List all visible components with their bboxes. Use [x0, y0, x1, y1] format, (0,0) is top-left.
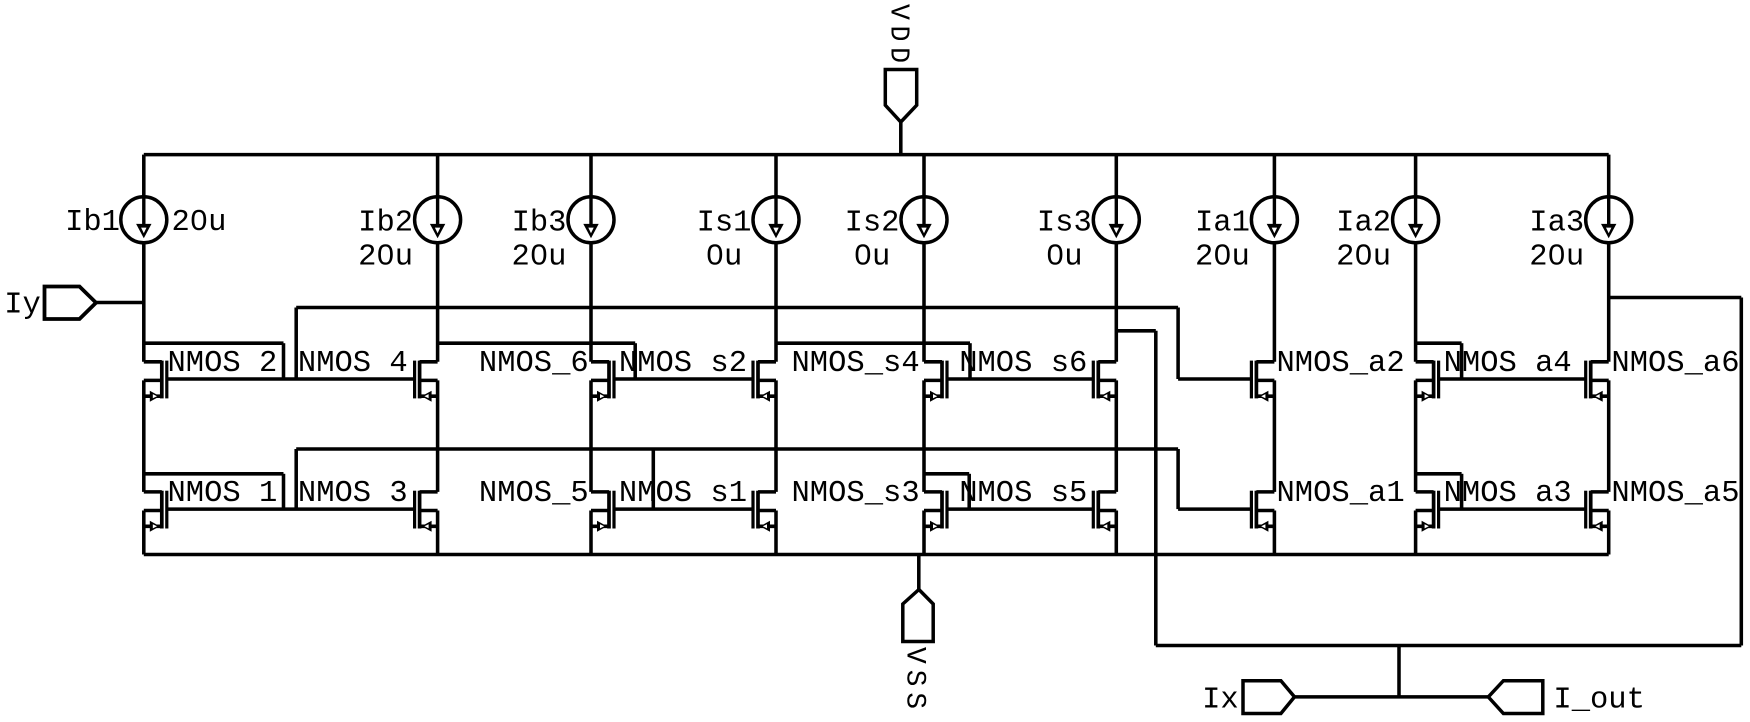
svg-text:Ib3: Ib3 — [512, 206, 567, 240]
svg-text:Is1: Is1 — [697, 206, 752, 240]
svg-text:NMOS_5: NMOS_5 — [479, 477, 589, 511]
svg-text:NMOS_s3: NMOS_s3 — [792, 477, 920, 511]
svg-text:Ia3: Ia3 — [1529, 206, 1584, 240]
svg-text:Ix: Ix — [1202, 683, 1239, 717]
svg-text:NMOS s6: NMOS s6 — [959, 347, 1087, 381]
svg-text:NMOS 3: NMOS 3 — [298, 477, 408, 511]
svg-text:0u: 0u — [1046, 240, 1083, 274]
svg-text:NMOS a4: NMOS a4 — [1444, 347, 1572, 381]
svg-text:NMOS a3: NMOS a3 — [1444, 477, 1572, 511]
svg-text:NMOS_a5: NMOS_a5 — [1611, 477, 1739, 511]
svg-text:Is2: Is2 — [845, 206, 900, 240]
svg-text:NMOS 4: NMOS 4 — [298, 347, 408, 381]
svg-text:Ib2: Ib2 — [358, 206, 413, 240]
svg-text:Ia1: Ia1 — [1195, 206, 1250, 240]
svg-text:Is3: Is3 — [1037, 206, 1092, 240]
svg-text:NMOS_a6: NMOS_a6 — [1611, 347, 1739, 381]
svg-text:0u: 0u — [706, 240, 743, 274]
svg-text:Ia2: Ia2 — [1336, 206, 1391, 240]
svg-text:NMOS 2: NMOS 2 — [168, 347, 278, 381]
svg-text:NMOS s2: NMOS s2 — [619, 347, 747, 381]
svg-text:NMOS s5: NMOS s5 — [959, 477, 1087, 511]
svg-text:NMOS_a2: NMOS_a2 — [1277, 347, 1405, 381]
svg-text:VSS: VSS — [899, 647, 930, 709]
svg-text:NMOS s1: NMOS s1 — [619, 477, 747, 511]
svg-text:NMOS_6: NMOS_6 — [479, 347, 589, 381]
svg-text:NMOS 1: NMOS 1 — [168, 477, 278, 511]
svg-text:Ib1: Ib1 — [65, 206, 120, 240]
svg-text:NMOS_a1: NMOS_a1 — [1277, 477, 1405, 511]
svg-text:VDD: VDD — [883, 4, 913, 63]
svg-text:I_out: I_out — [1553, 683, 1645, 717]
svg-text:0u: 0u — [854, 240, 891, 274]
svg-text:NMOS_s4: NMOS_s4 — [792, 347, 920, 381]
svg-text:Iy: Iy — [4, 288, 41, 322]
